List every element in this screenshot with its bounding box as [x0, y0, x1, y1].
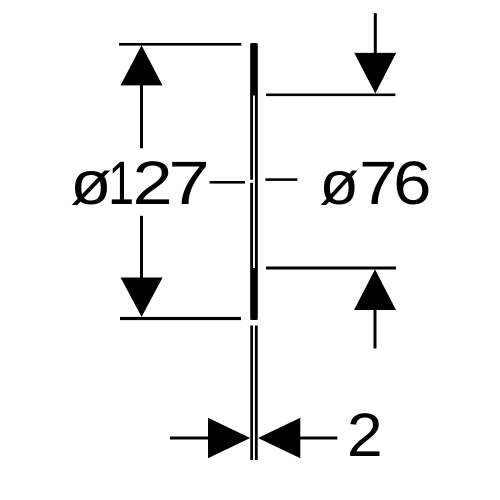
- thickness ext line right: [255, 326, 258, 461]
- svg-text:2: 2: [347, 402, 383, 470]
- dim ext line top (ø76): [266, 94, 395, 97]
- svg-text:ø: ø: [319, 150, 359, 218]
- svg-text:7: 7: [168, 149, 209, 217]
- thickness ext line left: [250, 326, 253, 461]
- stem top (ø127): [140, 85, 143, 148]
- plate edge top solid segment: [250, 43, 258, 96]
- stem left (thickness): [170, 437, 209, 440]
- label ø127: [70, 149, 209, 218]
- svg-text:ø: ø: [70, 149, 111, 217]
- stem bottom (ø76): [374, 310, 377, 349]
- leader dash ø76: [265, 178, 297, 181]
- svg-text:6: 6: [393, 149, 431, 217]
- arrow right (thickness left): [208, 418, 250, 458]
- arrow down (ø76 top): [354, 53, 396, 94]
- stem bottom (ø127): [140, 216, 143, 278]
- dim ext line bottom (ø127): [120, 317, 241, 320]
- arrow down (ø127 bottom): [121, 278, 163, 317]
- leader dash ø127: [210, 181, 246, 184]
- svg-text:2: 2: [132, 149, 172, 217]
- arrow up (ø127 top): [121, 45, 163, 85]
- plate edge bottom solid segment: [250, 268, 258, 320]
- stem right (thickness): [300, 437, 337, 440]
- plate right face line: [255, 93, 258, 270]
- arrow up (ø76 bottom): [354, 269, 396, 310]
- label ø76: [319, 149, 431, 218]
- dim ext line bottom (ø76): [266, 267, 396, 270]
- svg-text:1: 1: [108, 150, 134, 218]
- dim ext line top (ø127): [119, 43, 241, 46]
- svg-text:7: 7: [359, 149, 397, 217]
- stem top (ø76): [374, 13, 377, 53]
- arrow left (thickness right): [258, 418, 300, 458]
- plate left face line: [250, 93, 253, 180]
